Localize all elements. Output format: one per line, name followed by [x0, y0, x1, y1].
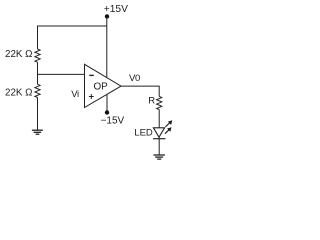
LED arrow 2	[165, 127, 172, 134]
svg-text:−15V: −15V	[101, 116, 125, 127]
svg-text:22K Ω: 22K Ω	[5, 49, 32, 60]
wire to LED	[158, 110, 160, 128]
resistor R2 22K (lower left)	[35, 84, 40, 97]
svg-text:V0: V0	[129, 73, 140, 84]
wire +15V supply	[106, 16, 108, 77]
wire left rail bottom	[37, 98, 39, 131]
op-amp U1	[85, 64, 122, 107]
wire left rail middle	[37, 62, 39, 84]
node +15V dot	[105, 14, 109, 18]
svg-text:OP: OP	[94, 82, 109, 93]
svg-text:22K Ω: 22K Ω	[5, 87, 32, 98]
node -15V dot	[105, 110, 109, 114]
LED cathode bar	[153, 138, 165, 140]
pin plus	[89, 94, 94, 99]
ground (right)	[153, 155, 165, 159]
resistor R1 22K (upper left)	[35, 49, 40, 62]
pin minus	[89, 74, 94, 76]
wire output V0	[121, 86, 159, 96]
svg-text:LED: LED	[134, 128, 153, 139]
resistor R	[157, 96, 162, 109]
ground (left)	[32, 130, 43, 134]
svg-text:Vi: Vi	[71, 89, 79, 100]
wire top rail	[38, 26, 107, 49]
LED D1	[153, 128, 164, 137]
wire LED to ground	[158, 137, 160, 155]
svg-text:+15V: +15V	[104, 4, 128, 15]
LED arrow 1	[166, 120, 173, 127]
svg-text:R: R	[148, 96, 155, 107]
wire inverting input	[38, 73, 85, 75]
wire -15V supply	[106, 95, 108, 113]
